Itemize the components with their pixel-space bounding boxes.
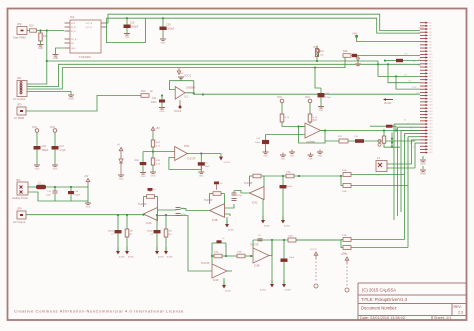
svg-text:GND: GND (119, 179, 124, 181)
svg-text:+5V: +5V (84, 175, 89, 178)
svg-text:GND: GND (290, 156, 295, 158)
svg-text:JP1: JP1 (17, 76, 22, 80)
svg-text:10µF: 10µF (205, 166, 211, 168)
svg-text:AGND: AGND (128, 256, 134, 259)
svg-text:IN_A: IN_A (71, 26, 76, 29)
svg-text:GND: GND (319, 110, 324, 112)
svg-text:+5V: +5V (156, 127, 161, 130)
svg-text:HV Output: HV Output (13, 220, 25, 224)
svg-text:R10: R10 (29, 25, 34, 28)
svg-text:MGND: MGND (384, 102, 392, 105)
svg-text:IC4D: IC4D (213, 279, 219, 282)
svg-text:Sheet: 1/1: Sheet: 1/1 (434, 316, 451, 320)
svg-text:TL072P: TL072P (201, 262, 210, 265)
svg-text:AGND: AGND (167, 256, 173, 259)
svg-text:GND: GND (308, 159, 313, 161)
svg-text:GND: GND (318, 156, 323, 158)
svg-text:GND: GND (68, 98, 74, 101)
svg-text:+V: +V (117, 144, 120, 147)
svg-text:100µF: 100µF (42, 149, 49, 152)
svg-text:OMR: OMR (375, 175, 381, 177)
svg-text:100µF: 100µF (74, 195, 81, 197)
svg-text:GND: GND (420, 162, 426, 166)
svg-text:IC4C: IC4C (252, 202, 258, 205)
svg-text:OUT_B: OUT_B (85, 27, 92, 29)
svg-text:AGND: AGND (158, 256, 164, 259)
svg-text:IC4A: IC4A (146, 222, 152, 225)
svg-text:JP2: JP2 (17, 22, 22, 26)
svg-text:4.7µF: 4.7µF (325, 97, 331, 99)
svg-text:VCC: VCC (305, 96, 310, 99)
svg-text:AGND: AGND (228, 229, 234, 232)
svg-text:TL072P: TL072P (204, 199, 213, 202)
svg-text:VCC: VCC (50, 126, 55, 129)
svg-text:S3: S3 (410, 128, 412, 130)
svg-text:VCC/2: VCC/2 (341, 254, 348, 256)
svg-text:LV Control: LV Control (13, 97, 25, 101)
svg-text:C14: C14 (130, 22, 135, 25)
svg-text:R12: R12 (141, 90, 146, 93)
svg-text:1M: 1M (169, 231, 172, 233)
svg-text:IC4B: IC4B (212, 219, 218, 222)
svg-text:IC1: IC1 (185, 96, 189, 99)
svg-text:GND: GND (35, 169, 40, 171)
svg-text:TL072P: TL072P (244, 182, 253, 185)
svg-text:JP4: JP4 (16, 178, 21, 182)
svg-text:IC4B: IC4B (254, 265, 260, 268)
svg-text:C12: C12 (135, 159, 140, 162)
svg-text:VCC: VCC (277, 96, 282, 99)
svg-text:TL072P: TL072P (187, 158, 196, 161)
svg-text:AGND: AGND (225, 290, 231, 293)
svg-text:GPWM: GPWM (418, 28, 424, 30)
svg-text:VCC/2: VCC/2 (184, 75, 192, 78)
svg-text:Document Number:: Document Number: (361, 306, 397, 311)
svg-text:IC3: IC3 (313, 119, 317, 122)
svg-text:TC4426A: TC4426A (79, 55, 91, 59)
svg-text:2.3: 2.3 (458, 311, 463, 315)
svg-text:GND: GND (141, 176, 146, 178)
svg-text:1M: 1M (130, 231, 133, 233)
svg-text:VCC/2: VCC/2 (310, 249, 317, 251)
svg-text:GND: GND (53, 57, 59, 60)
svg-text:470p: 470p (181, 214, 187, 216)
svg-text:TL072P: TL072P (138, 203, 147, 206)
svg-text:GND: GND (86, 207, 91, 209)
svg-text:4.7µF: 4.7µF (60, 149, 67, 152)
svg-text:AGND: AGND (285, 289, 291, 292)
svg-text:1000p: 1000p (108, 231, 115, 233)
svg-text:1000p: 1000p (147, 231, 154, 233)
svg-text:10µF: 10µF (289, 257, 295, 259)
svg-text:1000µF: 1000µF (166, 28, 175, 31)
svg-text:GND: GND (420, 172, 426, 176)
svg-text:NC_A: NC_A (71, 38, 77, 41)
svg-text:C17: C17 (60, 145, 65, 148)
svg-text:GND: GND (53, 169, 58, 171)
svg-text:IC5A: IC5A (184, 145, 190, 148)
svg-text:TL072P: TL072P (250, 244, 259, 247)
svg-text:TITLE: PickupDriverV1.3: TITLE: PickupDriverV1.3 (361, 297, 408, 302)
svg-text:REV:: REV: (454, 305, 462, 309)
svg-text:S1: S1 (404, 120, 406, 122)
svg-text:AGND: AGND (260, 289, 266, 292)
svg-text:GND: GND (125, 37, 130, 39)
svg-text:LM358N: LM358N (306, 141, 315, 144)
svg-text:OUT_A: OUT_A (85, 22, 92, 25)
svg-text:GND: GND (199, 176, 204, 178)
svg-text:LV PWM: LV PWM (14, 116, 24, 120)
svg-text:Date: 03/01/2015 13:56:02: Date: 03/01/2015 13:56:02 (360, 316, 405, 320)
svg-text:100n: 100n (151, 101, 157, 104)
svg-text:VCC: VCC (32, 126, 37, 129)
svg-text:GND: GND (281, 159, 286, 161)
svg-text:GND: GND (71, 48, 76, 50)
svg-text:AGND: AGND (284, 225, 290, 228)
svg-text:IC2: IC2 (70, 15, 75, 19)
svg-text:JP5: JP5 (17, 207, 22, 211)
svg-text:(C) 2015 CAµSSA: (C) 2015 CAµSSA (362, 288, 396, 293)
svg-text:GND: GND (161, 43, 166, 45)
svg-text:1000µF: 1000µF (130, 26, 139, 29)
svg-text:R18: R18 (343, 50, 348, 53)
svg-text:GND: GND (179, 73, 184, 75)
svg-text:10µF: 10µF (255, 142, 261, 144)
svg-text:VDD: VDD (71, 23, 76, 25)
svg-text:100n: 100n (46, 195, 52, 197)
svg-text:VCC: VCC (313, 46, 318, 49)
svg-text:10µF: 10µF (287, 186, 293, 188)
svg-text:VCC/2: VCC/2 (224, 162, 231, 164)
svg-text:IN_B: IN_B (71, 31, 76, 33)
svg-text:GND: GND (151, 176, 156, 178)
svg-text:C19: C19 (42, 145, 47, 148)
svg-text:C20: C20 (166, 24, 171, 27)
svg-text:VCC/2: VCC/2 (174, 110, 182, 113)
svg-text:GND: GND (263, 156, 268, 158)
svg-text:GND: GND (38, 47, 44, 50)
svg-text:Creative Commons Attribution-N: Creative Commons Attribution-NonCommerci… (14, 309, 184, 314)
svg-text:Gate PWM: Gate PWM (13, 36, 26, 40)
svg-text:Analog Power: Analog Power (12, 196, 28, 200)
svg-text:JP3: JP3 (17, 103, 22, 107)
svg-text:GND: GND (160, 111, 165, 113)
svg-text:C11: C11 (152, 97, 157, 100)
svg-text:AGND: AGND (119, 256, 125, 259)
svg-text:AGND: AGND (264, 225, 270, 228)
svg-text:470p: 470p (237, 195, 243, 197)
